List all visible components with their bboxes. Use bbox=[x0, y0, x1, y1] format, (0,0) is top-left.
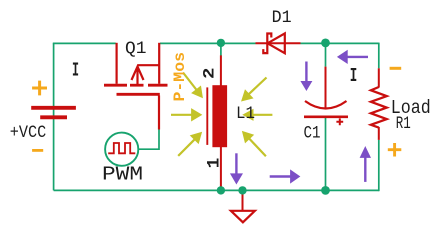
ground triangle bbox=[231, 211, 255, 223]
resistor R1 bottom lead red bbox=[378, 127, 380, 140]
ray arrow yellow lower right bbox=[243, 132, 266, 157]
resistor R1 top lead red bbox=[378, 68, 380, 87]
transistor Q1 gate plate bbox=[117, 93, 160, 96]
wire inductor bottom stub bbox=[220, 186, 222, 191]
wire pwm gate green bbox=[138, 129, 159, 150]
current arrow purple right bottom bbox=[270, 170, 300, 182]
node dot bottom capacitor bbox=[321, 186, 330, 195]
wire capacitor top stub bbox=[325, 43, 327, 67]
transistor Q1 left lead bbox=[115, 43, 117, 84]
wire top left segment bbox=[53, 42, 116, 44]
svg-text:I: I bbox=[350, 65, 358, 87]
transistor Q1 right lead bbox=[158, 43, 160, 84]
node dot bottom inductor bbox=[217, 186, 225, 194]
ray arrow yellow middle left bbox=[171, 109, 201, 121]
wire right rail upper green bbox=[378, 43, 380, 69]
capacitor C1 curved plate bbox=[305, 101, 347, 109]
inductor L1 body bbox=[212, 85, 227, 147]
svg-text:1: 1 bbox=[205, 158, 225, 169]
svg-text:L1: L1 bbox=[236, 104, 255, 124]
transistor Q1 right plate bbox=[148, 84, 168, 87]
svg-text:+VCC: +VCC bbox=[10, 123, 47, 143]
resistor plus sign orange bbox=[388, 143, 402, 157]
inductor L1 top lead red bbox=[220, 55, 222, 86]
capacitor C1 top lead red bbox=[325, 67, 327, 109]
capacitor C1 straight plate bbox=[304, 116, 348, 119]
svg-text:Q1: Q1 bbox=[125, 39, 147, 59]
pwm pulse waveform bbox=[108, 143, 135, 153]
ground stem bbox=[242, 191, 244, 210]
transistor Q1 top link bbox=[138, 64, 160, 66]
diode D1 schottky bar bbox=[263, 34, 271, 54]
diode D1 triangle bbox=[268, 33, 285, 53]
svg-text:2: 2 bbox=[201, 68, 219, 80]
ray arrow yellow upper right bbox=[242, 78, 267, 101]
transistor Q1 bulk arrow shaft bbox=[136, 68, 138, 84]
battery plus sign orange bbox=[32, 81, 47, 96]
node dot bottom ground bbox=[238, 186, 246, 194]
wire top right segment bbox=[301, 42, 379, 44]
svg-text:I: I bbox=[72, 59, 79, 81]
transistor Q1 gate lead red bbox=[158, 96, 160, 130]
wire capacitor bottom bbox=[325, 118, 327, 191]
transistor Q1 left plate bbox=[104, 84, 127, 87]
svg-text:C1: C1 bbox=[304, 124, 321, 144]
svg-text:P-Mos: P-Mos bbox=[171, 52, 189, 102]
node dot top capacitor bbox=[321, 39, 330, 48]
transistor Q1 bulk arrow head bbox=[132, 67, 144, 80]
current arrow purple down left of capacitor bbox=[301, 62, 311, 91]
resistor minus sign orange bbox=[390, 67, 402, 70]
wire right rail lower green bbox=[378, 140, 380, 191]
wire left vertical rail bbox=[53, 43, 55, 190]
transistor Q1 middle plate bbox=[130, 84, 144, 87]
ray arrow yellow upper left bbox=[183, 73, 202, 98]
battery minus sign orange bbox=[32, 149, 43, 152]
ray arrow yellow middle right bbox=[243, 110, 272, 120]
pwm source circle bbox=[105, 133, 138, 166]
wire top middle segment bbox=[160, 42, 256, 44]
current arrow purple up near resistor bbox=[360, 147, 370, 182]
ray arrow yellow lower left bbox=[178, 133, 201, 156]
wire inductor top stub bbox=[220, 43, 222, 56]
svg-text:PWM: PWM bbox=[102, 164, 143, 186]
svg-text:D1: D1 bbox=[272, 8, 292, 28]
node dot top inductor bbox=[217, 39, 225, 47]
battery B1 plate short bbox=[40, 115, 67, 119]
inductor L1 core bar bbox=[206, 87, 208, 144]
svg-text:R1: R1 bbox=[396, 114, 411, 134]
resistor R1 zigzag bbox=[371, 87, 387, 128]
battery B1 plate long bbox=[31, 106, 76, 110]
diode D1 lead line bbox=[256, 42, 301, 44]
capacitor C1 plus sign red bbox=[336, 118, 343, 125]
current arrow purple down near inductor bbox=[231, 153, 242, 183]
current arrow purple left at top right bbox=[338, 51, 368, 63]
inductor L1 bottom lead red bbox=[220, 147, 222, 187]
wire bottom rail bbox=[54, 189, 379, 191]
